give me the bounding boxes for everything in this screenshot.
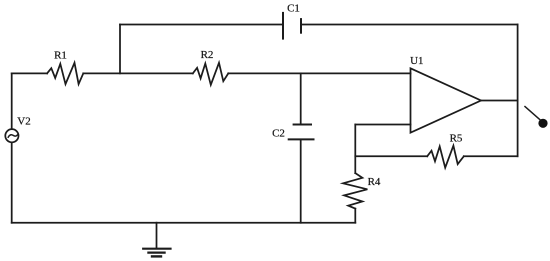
wire: R5 to right vertical rail	[464, 155, 518, 157]
svg-text:C1: C1	[287, 3, 300, 15]
resistor R4	[343, 173, 367, 209]
wire: left source branch (V2 vertical)	[11, 73, 13, 222]
capacitor C1	[283, 13, 301, 39]
svg-text:U1: U1	[410, 55, 423, 67]
wire: main horizontal net (V2/R1 left segment)	[12, 72, 47, 74]
wire: C1 right plate to right vertical rail	[301, 24, 518, 26]
wire: R2 to op-amp non-inverting input (through C2 node)	[228, 72, 410, 74]
capacitor C2	[289, 73, 314, 222]
resistor R5	[427, 146, 464, 168]
wire: op-amp inverting input stub	[355, 124, 410, 126]
wire: op-amp output to right rail	[481, 100, 518, 102]
svg-text:R2: R2	[201, 49, 214, 61]
svg-text:R5: R5	[450, 133, 463, 145]
wire: bottom ground rail	[12, 222, 356, 224]
resistor R1	[47, 63, 83, 84]
ground	[143, 223, 170, 257]
wire: R1 to R2 through node at x=120	[83, 72, 193, 74]
wire: R4 bottom lead to ground rail	[354, 209, 356, 223]
wire: top feedback rail to C1 left plate	[120, 24, 283, 26]
resistor R2	[193, 63, 229, 85]
svg-text:C2: C2	[272, 127, 285, 139]
svg-text:R4: R4	[368, 176, 381, 188]
svg-text:V2: V2	[17, 116, 30, 128]
source V2	[5, 129, 18, 142]
svg-text:R1: R1	[54, 49, 67, 61]
wire: right vertical rail (C1 feedback / output / R5)	[517, 25, 519, 157]
output terminal probe	[525, 107, 548, 128]
op-amp U1	[411, 68, 482, 132]
wire: inverting input down to R4/R5 junction	[354, 125, 356, 174]
wire: R4/R5 junction to R5	[355, 155, 427, 157]
wire: vertical stub from node x=120 up to top feedback rail	[119, 25, 121, 74]
